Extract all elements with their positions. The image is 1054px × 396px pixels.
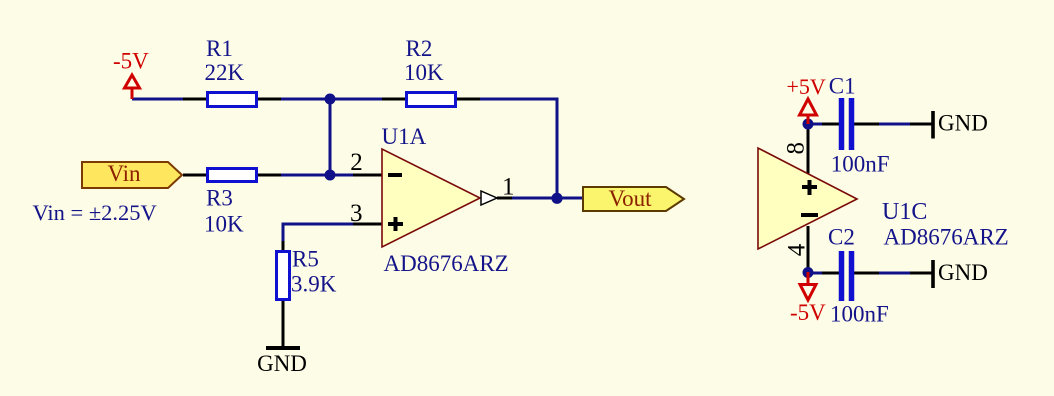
svg-text:-5V: -5V <box>113 49 149 74</box>
svg-text:3.9K: 3.9K <box>291 271 337 296</box>
svg-text:8: 8 <box>783 142 810 155</box>
svg-text:22K: 22K <box>205 60 245 85</box>
svg-text:100nF: 100nF <box>830 301 889 326</box>
svg-text:2: 2 <box>350 149 363 176</box>
svg-text:Vin = ±2.25V: Vin = ±2.25V <box>33 200 157 225</box>
svg-text:10K: 10K <box>404 60 444 85</box>
svg-text:U1A: U1A <box>382 124 427 149</box>
svg-text:GND: GND <box>938 111 988 136</box>
svg-text:4: 4 <box>783 243 810 256</box>
svg-text:R5: R5 <box>292 247 319 272</box>
svg-text:GND: GND <box>257 351 307 376</box>
svg-text:R2: R2 <box>406 36 433 61</box>
svg-text:R3: R3 <box>206 186 233 211</box>
svg-text:AD8676ARZ: AD8676ARZ <box>384 251 509 276</box>
svg-text:R1: R1 <box>206 36 233 61</box>
svg-text:+5V: +5V <box>787 74 826 99</box>
svg-text:10K: 10K <box>204 212 244 237</box>
svg-text:GND: GND <box>938 260 988 285</box>
svg-text:AD8676ARZ: AD8676ARZ <box>884 224 1009 249</box>
svg-text:C2: C2 <box>828 225 855 250</box>
svg-text:100nF: 100nF <box>831 151 890 176</box>
svg-text:1: 1 <box>502 174 515 201</box>
svg-text:Vin: Vin <box>107 161 141 186</box>
svg-text:3: 3 <box>350 200 363 227</box>
svg-text:-5V: -5V <box>790 300 826 325</box>
svg-text:C1: C1 <box>829 74 856 99</box>
svg-text:U1C: U1C <box>882 199 927 225</box>
svg-text:Vout: Vout <box>608 186 652 211</box>
